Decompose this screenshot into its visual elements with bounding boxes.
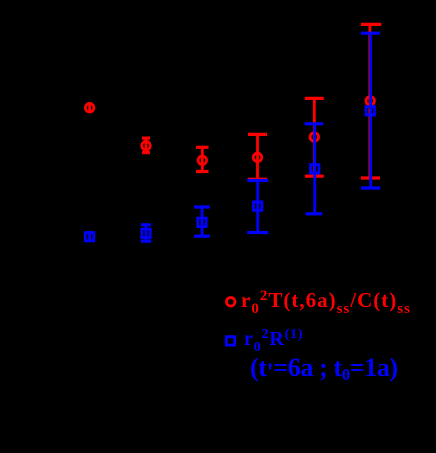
red errorbar point 2: [142, 138, 150, 153]
blue errorbar point 3: [194, 207, 210, 236]
legend red circle symbol: [226, 298, 235, 307]
blue errorbar point 5: [305, 124, 324, 214]
blue square marker 3: [198, 218, 206, 226]
blue square marker 1: [85, 233, 93, 241]
blue errorbar point 2: [141, 225, 151, 241]
red circle marker 6: [366, 97, 375, 106]
blue errorbar point 6: [361, 33, 380, 188]
blue errorbar point 1: [88, 233, 91, 242]
blue square marker 6: [366, 107, 374, 115]
red circle marker 3: [198, 156, 207, 165]
blue square marker 2: [142, 229, 150, 237]
blue errorbar point 4: [247, 181, 268, 233]
red circle marker 1: [85, 103, 94, 112]
red circle marker 4: [253, 153, 262, 162]
legend text line 2 (blue): r0^2 R^(1): [244, 328, 303, 351]
blue square marker 5: [311, 165, 319, 173]
legend text line 1 (red): r0^2 T(t,6a)_ss / C(t)_ss: [241, 288, 411, 313]
blue square marker 4: [254, 202, 262, 210]
legend blue square symbol: [226, 337, 234, 345]
red errorbar point 1: [88, 104, 91, 113]
red errorbar point 4: [248, 134, 267, 179]
legend text line 3 (blue): (t'=6a ; t0=1a): [250, 353, 398, 383]
red errorbar point 6: [361, 24, 381, 178]
red errorbar point 3: [196, 147, 208, 171]
red circle marker 5: [310, 133, 319, 142]
red circle marker 2: [142, 141, 151, 150]
red errorbar point 5: [305, 98, 324, 176]
